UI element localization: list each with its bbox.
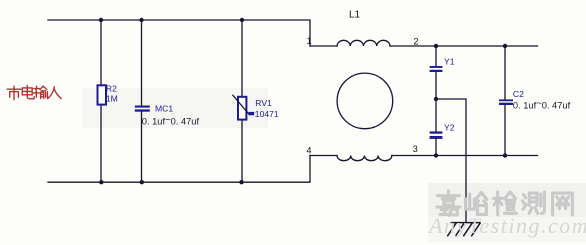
svg-text:3: 3 xyxy=(413,144,418,154)
capacitor MC1 plates xyxy=(135,106,150,112)
svg-text:1M: 1M xyxy=(106,93,118,103)
node dot Y midpoint xyxy=(434,97,438,101)
wire Y1 branch xyxy=(435,46,437,99)
wire bottom bus N line xyxy=(48,156,310,183)
node dot top RV1 xyxy=(240,18,244,22)
node dot top R2 xyxy=(99,18,103,22)
wire top rail L line xyxy=(48,20,310,46)
wm char 检 xyxy=(494,192,517,215)
node dot pin2 Y1 xyxy=(434,44,438,48)
svg-text:4: 4 xyxy=(307,146,312,156)
inductor L1 bottom winding xyxy=(337,156,392,161)
svg-text:1: 1 xyxy=(307,36,312,46)
wire R2 branch xyxy=(100,20,102,182)
capacitor Y2 plates xyxy=(430,131,443,139)
wm char 测 xyxy=(523,192,545,213)
svg-text:MC1: MC1 xyxy=(155,103,173,113)
varistor RV1 tab square xyxy=(249,112,255,115)
node dot bottom C2 xyxy=(503,153,507,157)
wm char 网 xyxy=(553,193,573,215)
inductor L1 top winding xyxy=(337,40,390,46)
wire RV1 branch xyxy=(241,20,243,182)
svg-text:C2: C2 xyxy=(513,89,524,99)
text 市电输入 (red, hand-drawn strokes) xyxy=(7,86,61,100)
wire top rail right of L1 xyxy=(390,45,538,47)
node dot top MC1 xyxy=(139,18,143,22)
node dot bottom MC1 xyxy=(140,180,144,184)
node dot bottom R2 xyxy=(99,180,103,184)
wm char 峪 xyxy=(466,193,487,215)
wire MC1 branch xyxy=(141,20,143,182)
svg-text:AnyTesting.com: AnyTesting.com xyxy=(427,213,586,238)
svg-text:Y1: Y1 xyxy=(444,57,455,67)
svg-text:0. 1uf~0. 47uf: 0. 1uf~0. 47uf xyxy=(513,98,571,110)
svg-text:R2: R2 xyxy=(106,84,117,94)
capacitor Y1 plates xyxy=(430,66,443,72)
char 市 xyxy=(7,86,21,100)
wire L1 bottom lead left xyxy=(310,155,337,157)
wire bottom rail right of L1 xyxy=(392,155,538,157)
svg-text:L1: L1 xyxy=(349,10,361,21)
resistor R2 body xyxy=(98,85,107,104)
wm char 嘉 xyxy=(437,191,460,215)
svg-text:2: 2 xyxy=(414,37,419,47)
capacitor C2 plates xyxy=(499,99,513,105)
wire L1 top lead left xyxy=(310,45,337,47)
wire Y1/Y2 midpoint to ground line xyxy=(436,99,466,223)
wire Y2 branch xyxy=(435,99,437,156)
node dot bottom RV1 xyxy=(239,180,243,184)
char 电 xyxy=(22,86,34,99)
varistor RV1 diagonal xyxy=(233,95,250,115)
varistor RV1 body xyxy=(238,97,246,120)
watermark 嘉峪检测网 (gray, hand-drawn strokes) xyxy=(437,191,572,215)
node dot top C2 xyxy=(503,44,507,48)
wire C2 branch xyxy=(504,46,506,156)
char 输 xyxy=(33,86,47,98)
char 入 xyxy=(48,87,61,99)
common-mode choke core circle xyxy=(337,73,393,129)
ground symbol xyxy=(447,223,480,237)
node dot pin3 Y2 xyxy=(434,153,438,157)
svg-text:10471: 10471 xyxy=(255,109,279,119)
svg-text:Y2: Y2 xyxy=(444,123,455,133)
svg-text:0. 1uf~0. 47uf: 0. 1uf~0. 47uf xyxy=(142,114,200,126)
svg-text:RV1: RV1 xyxy=(255,98,272,108)
